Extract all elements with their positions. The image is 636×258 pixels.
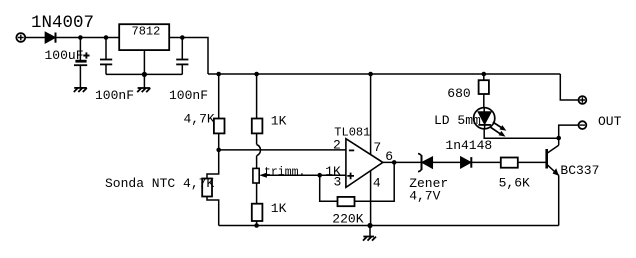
wire 7812 middle pin — [143, 50, 145, 74]
node junction at 100uF — [78, 35, 83, 40]
node rail-R2 — [254, 72, 259, 77]
svg-text:Sonda NTC 4,7K: Sonda NTC 4,7K — [105, 176, 214, 191]
ground (7812) — [137, 88, 150, 92]
capacitor C2 100nF left — [100, 38, 112, 75]
node R4-rail — [254, 223, 259, 228]
svg-text:4,7V: 4,7V — [409, 189, 440, 204]
resistor R4 1K — [252, 204, 263, 221]
trimmer wiper arrow — [259, 173, 267, 178]
capacitor C3 100nF right — [176, 38, 188, 75]
trimmer pot 1K — [253, 168, 259, 183]
node inverting input — [216, 148, 221, 153]
diode 1n4148 — [461, 157, 472, 168]
input terminal + — [16, 33, 25, 42]
output terminal + — [579, 96, 587, 104]
wire R2 to hop — [256, 133, 258, 144]
svg-text:100nF: 100nF — [169, 88, 208, 103]
svg-text:7812: 7812 — [132, 25, 161, 39]
svg-text:4: 4 — [373, 175, 381, 190]
wire feedback down from node — [320, 175, 338, 201]
svg-text:1K: 1K — [271, 113, 287, 128]
thermistor Sonda NTC 4,7K — [202, 179, 212, 197]
node pin4 ground — [367, 223, 372, 228]
wire 680 stub — [483, 74, 485, 80]
svg-text:3: 3 — [334, 175, 342, 190]
node rail-pin7 — [368, 72, 373, 77]
pin 4 wire — [370, 171, 372, 226]
pin 7 wire — [370, 74, 372, 155]
wire pin3 line — [320, 174, 346, 176]
wire wiper line — [266, 174, 320, 176]
wire 7812 out to corner — [169, 38, 208, 75]
ground (100uF) — [74, 88, 87, 92]
svg-text:LD 5mm: LD 5mm — [434, 113, 481, 128]
node output — [392, 160, 397, 165]
svg-text:100nF: 100nF — [95, 88, 134, 103]
svg-text:680: 680 — [447, 86, 470, 101]
capacitor C1 100uF electrolytic — [74, 38, 90, 88]
ground (op-amp) — [363, 237, 376, 241]
svg-text:5,6K: 5,6K — [499, 175, 530, 190]
wire NTC branch top — [207, 150, 219, 179]
wire top rail — [208, 73, 560, 75]
svg-text:trimm.: trimm. — [264, 166, 305, 179]
regulator U1 7812 — [119, 24, 169, 50]
wire minus terminal to collector node — [559, 125, 579, 138]
wire pin2 line — [219, 149, 346, 151]
plus sign non-inverting — [347, 173, 354, 180]
wire capacitor ground bus — [106, 73, 182, 75]
node junction at left 100nF — [104, 35, 109, 40]
wire zener to 1n4148 — [432, 161, 461, 163]
wire trimmer to R4 — [256, 183, 258, 204]
svg-text:1n4148: 1n4148 — [445, 138, 492, 153]
wire LED to collector node — [484, 129, 559, 139]
node feedback-wiper — [317, 173, 322, 178]
wire stub to ground — [143, 74, 145, 87]
resistor R5 220K — [338, 197, 355, 206]
wire 680 to LED — [483, 94, 485, 108]
wire op-amp output — [383, 161, 421, 163]
diode D1 1N4007 — [45, 33, 55, 43]
svg-text:220K: 220K — [332, 212, 363, 227]
wire rail down to R2 — [256, 74, 258, 119]
node junction at right 100nF — [180, 35, 185, 40]
node rail-R1 — [216, 72, 221, 77]
svg-text:2: 2 — [333, 137, 341, 152]
wire rail corner to plus terminal — [560, 74, 578, 100]
wire bottom rail — [219, 225, 559, 227]
LED arrow 1 — [493, 122, 507, 131]
minus sign inverting — [349, 149, 354, 151]
svg-text:BC337: BC337 — [560, 163, 599, 178]
wire feedback to output — [355, 162, 395, 201]
wire 5,6K to base — [518, 161, 546, 163]
resistor R1 4,7K — [214, 119, 225, 134]
svg-text:7: 7 — [373, 140, 381, 155]
resistor 5,6K — [501, 158, 518, 168]
svg-text:1N4007: 1N4007 — [31, 13, 94, 33]
resistor R2 1K — [252, 119, 263, 134]
wire hop over pin2 line — [257, 145, 261, 156]
LED LD 5mm — [474, 108, 495, 129]
wire rail down to R1 — [218, 74, 220, 119]
svg-text:1K: 1K — [271, 201, 287, 216]
svg-text:OUT: OUT — [598, 114, 622, 129]
wire NTC branch bottom — [207, 197, 219, 226]
node junction 7812 ground — [142, 72, 147, 77]
zener diode 4,7V — [418, 154, 432, 172]
wire 1n4148 to 5,6K — [471, 161, 501, 163]
node collector-LED-out — [556, 136, 561, 141]
wire diode to 7812 — [56, 37, 120, 39]
svg-text:4,7K: 4,7K — [184, 112, 215, 127]
wire input to diode — [25, 37, 45, 39]
svg-text:100uF: 100uF — [45, 48, 84, 63]
wire R4 to bottom rail — [256, 221, 258, 226]
LED arrow 2 — [490, 127, 506, 137]
wire R1 to node — [218, 133, 220, 150]
wire stub to ground — [369, 226, 371, 237]
resistor 680 — [479, 80, 489, 94]
transistor Q1 BC337 — [547, 138, 559, 226]
output terminal - — [579, 121, 587, 129]
wire hop to trimmer — [256, 156, 258, 169]
node rail-680 — [482, 72, 487, 77]
op-amp U2 TL081 — [346, 139, 383, 188]
